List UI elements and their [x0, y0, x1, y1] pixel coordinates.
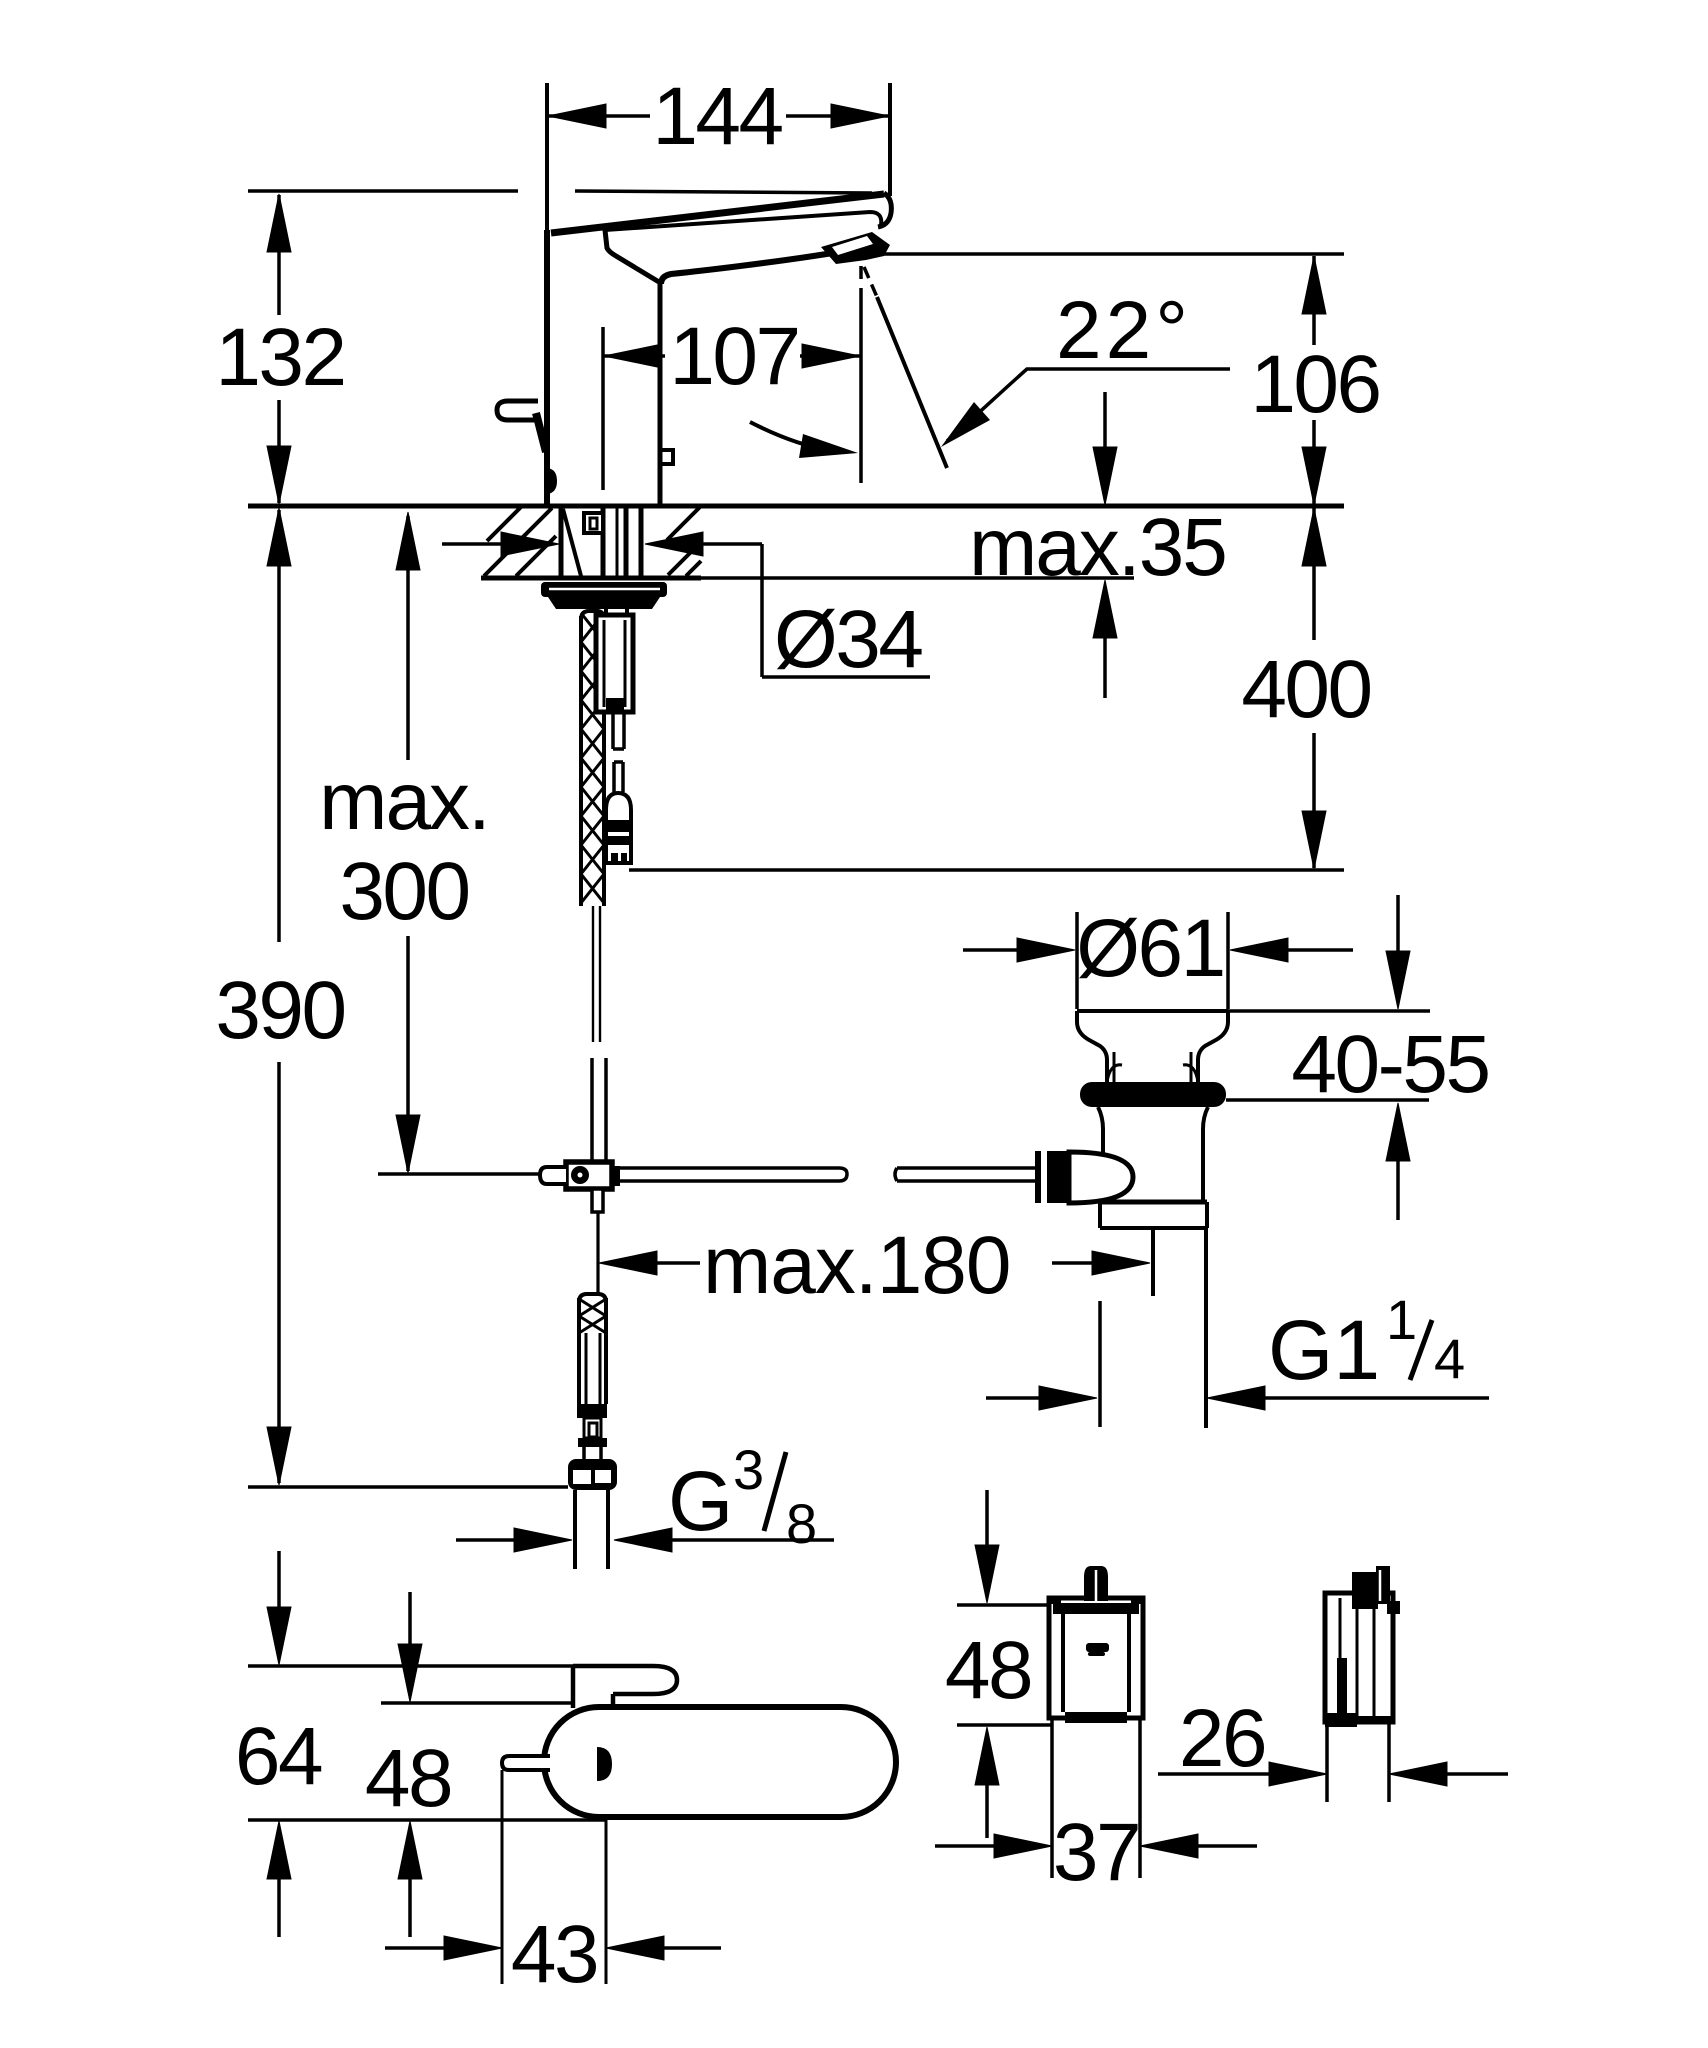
svg-text:400: 400	[1241, 644, 1370, 735]
faucet body back edge	[544, 230, 550, 505]
tee right nub	[610, 1166, 620, 1186]
dimension text 64	[235, 1711, 322, 1802]
svg-text:max.180: max.180	[703, 1220, 1011, 1311]
dimension text 48 (control box)	[945, 1625, 1031, 1716]
overflow inlet dome	[1069, 1152, 1133, 1203]
faucet body front edge	[658, 281, 663, 505]
faucet temperature lever	[497, 401, 538, 420]
dimension 40-55 arrows	[1386, 895, 1410, 1220]
countertop hatching left	[484, 507, 556, 576]
faucet spout inner edge	[605, 212, 881, 230]
dimension 390 bottom reference line	[248, 1485, 568, 1489]
cartridge rod	[611, 712, 615, 749]
shank fixing detail	[584, 513, 603, 533]
dimension 132 line and arrows	[267, 194, 291, 504]
svg-text:144: 144	[652, 71, 782, 162]
dimension 144 extension line left / faucet back edge	[545, 83, 549, 233]
dimension text 300	[339, 846, 468, 937]
sensor cable plug	[606, 793, 631, 863]
dimension 40-55 reference lines	[1228, 1009, 1430, 1013]
dimension 26 extension lines	[1325, 1722, 1329, 1802]
dimension text max.	[319, 756, 489, 847]
svg-text:1: 1	[1386, 1288, 1417, 1351]
faucet aerator	[821, 232, 890, 264]
pop-up rod tee junction	[566, 1162, 612, 1189]
svg-text:64: 64	[235, 1711, 322, 1802]
countertop bottom line	[481, 576, 701, 581]
22 degree angle arc with arrow	[750, 422, 828, 450]
dimension G3/8 arrows	[456, 1538, 515, 1542]
top view sensor window	[597, 1747, 612, 1781]
dimension text 40-55	[1291, 1019, 1488, 1110]
dimension text 26	[1179, 1693, 1265, 1784]
angle text 22deg	[1056, 285, 1192, 376]
svg-text:37: 37	[1053, 1807, 1139, 1898]
label text diameter 34	[774, 594, 922, 685]
dimension 48 top reference line	[381, 1701, 572, 1705]
drain tailpipe	[1151, 1228, 1155, 1296]
svg-text:300: 300	[339, 846, 468, 937]
svg-text:Ø61: Ø61	[1076, 903, 1224, 994]
faucet spout collar	[605, 230, 659, 282]
dimension 64 reference lines	[248, 1664, 573, 1668]
horizontal pop-up rod left stub	[540, 1167, 566, 1184]
dimension 37 arrows	[935, 1834, 1257, 1858]
water jet 22 degree line	[877, 297, 947, 468]
dimension text 400	[1241, 644, 1370, 735]
control box side view	[1325, 1593, 1393, 1722]
22 degree leader line	[947, 369, 1230, 441]
dimension 400 line and arrows	[1302, 508, 1326, 869]
dimension 107 extension line (faucet axis)	[859, 296, 863, 483]
drain waste upper cup	[1077, 1009, 1228, 1013]
dimension diameter 61 extension ticks	[1075, 912, 1079, 1009]
drain rubber seal ring	[1080, 1082, 1226, 1107]
control box front view	[1049, 1598, 1143, 1718]
supply hose lower section	[579, 1294, 606, 1302]
dimension text diameter 61	[1076, 903, 1224, 994]
svg-text:48: 48	[365, 1733, 451, 1824]
dimension 144 line and arrows	[547, 104, 890, 128]
dimension max.300 line and arrows	[396, 512, 420, 1173]
dimension 43 arrows	[385, 1936, 721, 1960]
dimension max.35 arrows	[1093, 392, 1117, 698]
svg-text:22°: 22°	[1056, 285, 1192, 376]
dimension 48 arrows (top view)	[398, 1592, 422, 1937]
dimension max.180 arrows	[599, 1251, 1150, 1275]
dimension text max.35	[969, 502, 1226, 593]
dimension 48 reference lines (control box)	[957, 1603, 1051, 1607]
diameter 34 leader arrows	[442, 532, 930, 677]
dimension text 37	[1053, 1807, 1139, 1898]
dimension 400 reference line	[629, 868, 1344, 872]
dimension 144 extension line right	[888, 83, 892, 196]
faucet body front tab	[660, 450, 673, 464]
overflow inlet connector	[1035, 1151, 1069, 1203]
vertical tube above tee	[590, 1058, 594, 1162]
faucet shank through counter	[561, 506, 641, 580]
svg-text:40-55: 40-55	[1291, 1019, 1488, 1110]
G3/8 connection pipe	[573, 1490, 577, 1569]
countertop hatching right	[667, 507, 701, 576]
dimension text 48 (top view)	[365, 1733, 451, 1824]
top view outlet pin	[502, 1756, 550, 1770]
dimension text 43	[511, 1909, 597, 2000]
countertop bottom extension line	[701, 576, 1134, 580]
thread text G3/8	[668, 1438, 817, 1555]
svg-text:43: 43	[511, 1909, 597, 2000]
drain cup inner walls	[1113, 1052, 1116, 1082]
svg-text:48: 48	[945, 1625, 1031, 1716]
dimension 106 line and arrows	[1302, 256, 1326, 505]
dimension 106 reference line at spout tip level	[868, 252, 1344, 256]
dimension text 132	[215, 312, 344, 403]
dimension 107 extension line left	[601, 327, 605, 490]
dimension 390 line and arrows	[267, 508, 291, 1485]
faucet spout top outline	[551, 194, 884, 233]
dimension 48 arrows (control box)	[975, 1490, 999, 1838]
svg-text:106: 106	[1250, 339, 1379, 430]
dimension text 107	[669, 311, 798, 402]
dimension text 106	[1250, 339, 1379, 430]
svg-text:G: G	[668, 1454, 733, 1548]
dimension 37 extension lines	[1050, 1718, 1054, 1878]
dimension text 390	[215, 965, 344, 1056]
hose end connector	[577, 1404, 607, 1447]
svg-text:max.35: max.35	[969, 502, 1226, 593]
water jet 22 degree line dashed part	[864, 267, 877, 297]
svg-text:26: 26	[1179, 1693, 1265, 1784]
svg-text:Ø34: Ø34	[774, 594, 922, 685]
svg-text:390: 390	[215, 965, 344, 1056]
faucet spout underside	[661, 253, 833, 284]
mounting flange	[541, 582, 667, 609]
svg-text:3: 3	[733, 1438, 764, 1501]
braided supply hose	[581, 611, 604, 620]
svg-text:107: 107	[669, 311, 798, 402]
countertop line	[248, 504, 1344, 509]
horizontal pop-up rod	[620, 1168, 847, 1181]
dimension text max.180	[703, 1220, 1011, 1311]
horizontal pop-up rod right section	[895, 1168, 1035, 1181]
svg-text:8: 8	[786, 1492, 817, 1555]
dimension max.300 bottom reference line	[378, 1172, 540, 1176]
svg-text:max.: max.	[319, 756, 489, 847]
top view faucet body oval	[544, 1707, 896, 1817]
G1 1/4 extension line	[1098, 1301, 1102, 1427]
dimension 64 arrows	[267, 1551, 291, 1937]
thread text G1 1/4	[1268, 1288, 1465, 1397]
top view lever	[573, 1666, 677, 1694]
dimension G1 1/4 arrows	[986, 1386, 1489, 1410]
faucet spout nose	[878, 193, 891, 227]
G3/8 union nut	[568, 1459, 617, 1490]
svg-text:132: 132	[215, 312, 344, 403]
drain waste lower body	[1098, 1107, 1103, 1202]
threaded rod and fitting	[604, 600, 608, 614]
faucet sensor bump	[547, 468, 557, 494]
dimension text 144	[652, 71, 782, 162]
water jet dashed axis	[859, 266, 863, 296]
sensor cable below tee	[596, 1212, 599, 1294]
dimension 26 arrows	[1158, 1762, 1508, 1786]
control box logo	[1086, 1643, 1109, 1652]
sensor cable plug upper	[612, 762, 616, 792]
svg-text:4: 4	[1434, 1327, 1465, 1390]
dimension 43 extension lines	[501, 1770, 504, 1984]
dimension 132 reference line at spout top	[248, 189, 518, 193]
dimension diameter 61 arrows	[963, 938, 1353, 962]
sensor cable lower	[592, 906, 594, 1042]
svg-text:G1: G1	[1268, 1303, 1380, 1397]
dimension 107 line and arrows	[603, 344, 861, 368]
